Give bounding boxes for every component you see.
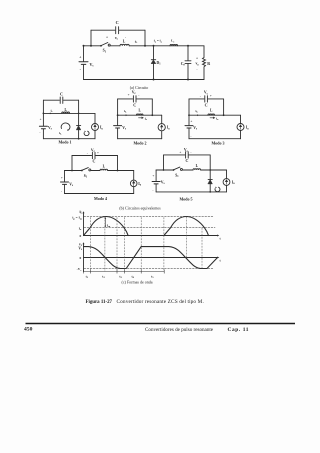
svg-text:L: L bbox=[196, 164, 199, 168]
svg-text:+: + bbox=[61, 176, 63, 180]
switch S1 (modo 4) bbox=[81, 170, 83, 172]
wire: modo1 bottom bbox=[43, 138, 95, 140]
battery Vs (modo 3) bbox=[185, 126, 193, 128]
svg-text:Convertidor resonante ZCS del: Convertidor resonante ZCS del tipo M. bbox=[117, 299, 204, 305]
axis: iL horizontal (t) bbox=[84, 235, 218, 237]
svg-text:t4: t4 bbox=[132, 275, 135, 280]
svg-text:iL: iL bbox=[124, 109, 127, 114]
wire: modo1 left rail bbox=[42, 100, 44, 139]
wire: C branch right vertical bbox=[144, 30, 146, 46]
dashed level -Vs bbox=[84, 268, 213, 270]
current source Io (modo 5) bbox=[226, 170, 228, 192]
svg-text:C: C bbox=[133, 102, 136, 107]
svg-text:Vs: Vs bbox=[90, 62, 95, 68]
svg-text:D1: D1 bbox=[157, 61, 162, 66]
node: D1 bottom bbox=[153, 79, 155, 81]
capacitor C (modo 2) bbox=[133, 96, 136, 102]
battery Vs (modo 1) bbox=[39, 126, 47, 128]
node: modo4 C right junction bbox=[117, 170, 119, 172]
dashed vertical t4 bbox=[140, 218, 142, 272]
svg-text:L: L bbox=[123, 40, 126, 44]
MODO2 bbox=[114, 96, 166, 139]
svg-text:ia: ia bbox=[145, 117, 148, 122]
wire: modo4 bottom bbox=[65, 193, 134, 195]
wire: modo4 left rail bbox=[64, 171, 66, 194]
svg-text:+: + bbox=[106, 35, 108, 39]
svg-text:io = ia: io = ia bbox=[154, 39, 163, 44]
inductor L (modo 2) bbox=[136, 114, 143, 115]
svg-text:+: + bbox=[196, 56, 198, 60]
loop arrow (modo 1 right mesh) bbox=[84, 131, 89, 135]
svg-text:Modo 2: Modo 2 bbox=[134, 140, 147, 145]
node: C branch left to main wire bbox=[90, 45, 92, 47]
svg-text:t5: t5 bbox=[151, 275, 154, 280]
wire: modo4 C branch verticals bbox=[72, 156, 118, 171]
inductor L (circuit a) bbox=[120, 44, 129, 46]
svg-text:Vc: Vc bbox=[204, 91, 209, 96]
svg-text:(c) Formas de onda: (c) Formas de onda bbox=[122, 280, 153, 285]
MODO1 bbox=[39, 97, 98, 140]
capacitor C (top branch of circuit a) bbox=[116, 27, 119, 34]
wire: modo3 middle with arrow bbox=[189, 114, 241, 116]
svg-text:Vs: Vs bbox=[48, 126, 52, 131]
node: Ce bottom bbox=[187, 79, 189, 81]
node: modo5 diode bottom junction bbox=[209, 191, 211, 193]
wire: modo2 middle with arrow bbox=[118, 114, 162, 116]
svg-text:Cap. 11: Cap. 11 bbox=[228, 327, 250, 333]
annotation arrow Im bbox=[104, 218, 106, 227]
svg-text:vo: vo bbox=[195, 62, 199, 67]
wire: top capacitor branch left segment bbox=[91, 29, 115, 31]
WAVE bbox=[83, 211, 220, 273]
svg-text:vc: vc bbox=[115, 36, 119, 41]
svg-text:Io: Io bbox=[138, 182, 141, 187]
dashed vertical t1 bbox=[89, 218, 91, 272]
current source Io (modo 3) bbox=[240, 115, 242, 139]
current source Io (modo 4) bbox=[133, 171, 135, 194]
dashed vertical t2 bbox=[116, 218, 118, 272]
arrow: ia (modo 2) bbox=[139, 117, 144, 119]
svg-text:is: is bbox=[51, 109, 53, 114]
svg-text:-: - bbox=[196, 68, 198, 72]
switch S1 (circuit a) bbox=[100, 45, 102, 47]
dashed vertical t5 bbox=[163, 218, 165, 272]
svg-text:S1: S1 bbox=[175, 174, 179, 179]
node: modo3 right middle junction bbox=[223, 114, 225, 116]
diode (modo 5) bbox=[208, 180, 212, 184]
svg-text:t: t bbox=[220, 258, 222, 262]
wire: modo2 C-branch right vertical bbox=[151, 99, 153, 115]
node: D1 branch junction top bbox=[153, 45, 155, 47]
svg-text:R: R bbox=[207, 61, 210, 66]
node: modo1 left middle junction bbox=[43, 113, 45, 115]
inductor L (modo 4) bbox=[100, 169, 108, 170]
wire: modo4 main horizontal bbox=[65, 170, 134, 172]
dashed level ip bbox=[84, 216, 214, 218]
node: modo2 left middle junction bbox=[117, 114, 119, 116]
wire: between switch and L bbox=[110, 45, 120, 47]
svg-text:L: L bbox=[210, 109, 213, 113]
svg-text:450: 450 bbox=[24, 326, 33, 332]
svg-text:Io: Io bbox=[100, 126, 103, 131]
svg-text:ia: ia bbox=[216, 117, 219, 122]
svg-text:+: + bbox=[97, 151, 99, 155]
svg-text:-: - bbox=[190, 150, 191, 154]
capacitor C (modo 4) bbox=[92, 152, 95, 158]
node: C branch to main wire bbox=[144, 45, 146, 47]
svg-text:t3: t3 bbox=[119, 275, 122, 280]
battery Vs (modo 5) bbox=[152, 182, 160, 184]
wire: C branch left vertical bbox=[90, 30, 92, 46]
svg-text:-: - bbox=[200, 94, 201, 98]
svg-text:Io: Io bbox=[167, 126, 170, 131]
svg-text:+: + bbox=[210, 94, 212, 98]
capacitor Ce (circuit a) bbox=[185, 61, 191, 64]
axis: vc vertical bbox=[83, 244, 85, 272]
footer rule bbox=[26, 323, 296, 325]
wire: bottom return of circuit a bbox=[84, 79, 205, 81]
diode D1 (circuit a) bbox=[151, 60, 156, 64]
svg-text:-: - bbox=[152, 189, 153, 193]
svg-text:-: - bbox=[138, 93, 139, 97]
MODO3 bbox=[185, 96, 244, 139]
svg-text:iL: iL bbox=[59, 131, 62, 136]
svg-text:Vs: Vs bbox=[78, 246, 82, 251]
svg-text:Vc: Vc bbox=[132, 90, 137, 95]
svg-text:Modo 3: Modo 3 bbox=[212, 140, 225, 145]
wire: modo5 bottom bbox=[156, 191, 226, 193]
svg-text:iL: iL bbox=[196, 109, 199, 114]
wire: modo2 bottom bbox=[118, 138, 162, 140]
node: modo3 left middle junction bbox=[188, 114, 190, 116]
node: modo1 right middle junction bbox=[78, 113, 80, 115]
wire: modo5 main horizontal bbox=[156, 169, 226, 171]
wire: modo5 C branch verticals bbox=[164, 155, 211, 170]
current source Io (modo 1) bbox=[94, 113, 96, 138]
time interval ruler bbox=[84, 271, 165, 273]
capacitor C (modo 3) bbox=[205, 96, 208, 102]
svg-text:L: L bbox=[64, 108, 67, 112]
axis: vc horizontal (t) bbox=[84, 257, 218, 259]
svg-text:0: 0 bbox=[80, 234, 82, 238]
svg-text:iL: iL bbox=[135, 39, 138, 44]
inductor Le (circuit a, output filter) bbox=[170, 44, 178, 45]
wire: modo4 top C branch bbox=[72, 155, 118, 157]
svg-text:(a) Circuito: (a) Circuito bbox=[130, 85, 149, 90]
svg-text:Io: Io bbox=[246, 126, 249, 131]
svg-text:+: + bbox=[40, 118, 42, 122]
svg-text:-Vs: -Vs bbox=[77, 267, 82, 272]
capacitor C (modo 1) bbox=[60, 97, 63, 103]
svg-text:iL: iL bbox=[79, 210, 82, 215]
dashed vertical at iL peak bbox=[104, 217, 106, 271]
loop arrow (modo 5 right mesh) bbox=[215, 187, 220, 191]
svg-text:0: 0 bbox=[80, 256, 82, 260]
dashed vertical second valley bbox=[201, 228, 203, 269]
svg-text:Modo 5: Modo 5 bbox=[180, 196, 193, 201]
svg-text:Convertidores de pulso resonan: Convertidores de pulso resonante bbox=[145, 327, 214, 333]
diode (modo 1 right rail) bbox=[76, 126, 80, 130]
wire: modo2 left rail bbox=[117, 99, 119, 139]
svg-text:Io: Io bbox=[79, 226, 82, 231]
wire: modo3 C-branch right vertical bbox=[223, 99, 225, 115]
svg-text:Le: Le bbox=[171, 39, 175, 44]
dashed level Io bbox=[84, 227, 215, 229]
arrow: ia (modo 3) bbox=[210, 117, 215, 119]
node: main wire / source junction bbox=[83, 45, 85, 47]
svg-text:C: C bbox=[92, 158, 95, 163]
svg-text:t1: t1 bbox=[86, 275, 89, 280]
wire: main horizontal left bbox=[84, 45, 101, 47]
svg-text:+: + bbox=[152, 174, 154, 178]
svg-text:Ce: Ce bbox=[181, 62, 186, 67]
svg-text:L: L bbox=[138, 109, 141, 113]
MODO5 bbox=[152, 152, 230, 193]
battery Vs (modo 4) bbox=[61, 182, 69, 184]
resistor R (circuit a) bbox=[203, 46, 206, 80]
svg-text:+: + bbox=[79, 54, 82, 59]
svg-text:-: - bbox=[61, 189, 62, 193]
loop current arrow (modo 1 left mesh) bbox=[61, 123, 70, 130]
capacitor C (modo 5) bbox=[186, 152, 189, 158]
node: modo1 bottom right bbox=[78, 138, 80, 140]
current source Io (modo 2) bbox=[161, 115, 163, 139]
svg-text:Modo 1: Modo 1 bbox=[59, 140, 72, 145]
wire: Ce vertical branch bbox=[187, 46, 189, 80]
battery Vs (circuit a) bbox=[79, 62, 88, 65]
svg-text:Io: Io bbox=[232, 180, 235, 185]
wire: modo3 left rail bbox=[188, 99, 190, 139]
wire: left rail lower bbox=[83, 46, 85, 80]
wire: modo5 left rail bbox=[155, 170, 157, 192]
svg-text:S1: S1 bbox=[103, 49, 107, 54]
CIRCUIT_A bbox=[79, 27, 206, 81]
waveform vc bbox=[84, 247, 217, 269]
MODO4 bbox=[61, 152, 138, 193]
wire: main horizontal mid bbox=[129, 45, 204, 47]
svg-text:+: + bbox=[190, 119, 192, 123]
wire: modo1 middle with arrow bbox=[43, 112, 95, 114]
wire: modo5 diode branch bbox=[209, 170, 211, 192]
waveform iL first pulse bbox=[84, 217, 129, 236]
axis: iL vertical bbox=[83, 213, 85, 236]
svg-text:+: + bbox=[179, 150, 181, 154]
inductor L (modo 5) bbox=[193, 169, 201, 170]
inductor L (modo 3) bbox=[208, 114, 215, 115]
svg-text:Vs: Vs bbox=[69, 182, 73, 187]
wire: D1 vertical branch bbox=[153, 46, 155, 80]
svg-text:C: C bbox=[205, 103, 208, 108]
battery Vs (modo 2) bbox=[114, 126, 122, 128]
svg-text:-: - bbox=[87, 151, 88, 155]
wire: modo5 top C branch bbox=[164, 154, 211, 156]
svg-text:Modo 4: Modo 4 bbox=[94, 196, 107, 201]
node: modo2 right middle junction bbox=[151, 114, 153, 116]
wire: top capacitor branch right segment bbox=[119, 29, 145, 31]
svg-text:t2: t2 bbox=[102, 275, 105, 280]
inductor L (modo 1) bbox=[62, 112, 70, 113]
node: modo5 C left junction bbox=[163, 169, 165, 171]
svg-text:-: - bbox=[80, 66, 82, 71]
svg-text:C: C bbox=[60, 92, 63, 97]
switch S1 (modo 5) bbox=[173, 169, 175, 171]
svg-text:C: C bbox=[116, 20, 119, 25]
svg-text:Vs: Vs bbox=[122, 126, 126, 131]
wire: modo1 right rail bbox=[78, 100, 80, 139]
dashed vertical second peak bbox=[186, 217, 188, 258]
wire: modo3 top branch bbox=[189, 98, 224, 100]
wire: modo2 top branch bbox=[118, 98, 153, 100]
svg-text:Vs: Vs bbox=[193, 126, 197, 131]
node: Ce branch junction top bbox=[187, 45, 189, 47]
node: modo4 C left junction bbox=[71, 170, 73, 172]
svg-text:Figura 11-27: Figura 11-27 bbox=[86, 300, 113, 305]
node: modo5 C right junction bbox=[209, 169, 211, 171]
svg-text:-: - bbox=[39, 130, 40, 134]
svg-text:S1: S1 bbox=[84, 174, 88, 179]
svg-text:C: C bbox=[185, 158, 188, 163]
wire: modo3 bottom bbox=[189, 138, 241, 140]
waveform iL second pulse bbox=[164, 217, 209, 236]
svg-text:ip = Im: ip = Im bbox=[72, 216, 82, 221]
svg-text:-: - bbox=[190, 134, 191, 138]
wire: modo1 top branch bbox=[43, 99, 78, 101]
svg-text:(b) Circuitos equivalentes: (b) Circuitos equivalentes bbox=[119, 205, 161, 210]
svg-text:L: L bbox=[103, 165, 106, 169]
dashed vertical t3 bbox=[124, 218, 126, 272]
svg-text:t: t bbox=[220, 236, 222, 240]
svg-text:+: + bbox=[128, 93, 130, 97]
svg-text:Vs: Vs bbox=[161, 180, 165, 185]
